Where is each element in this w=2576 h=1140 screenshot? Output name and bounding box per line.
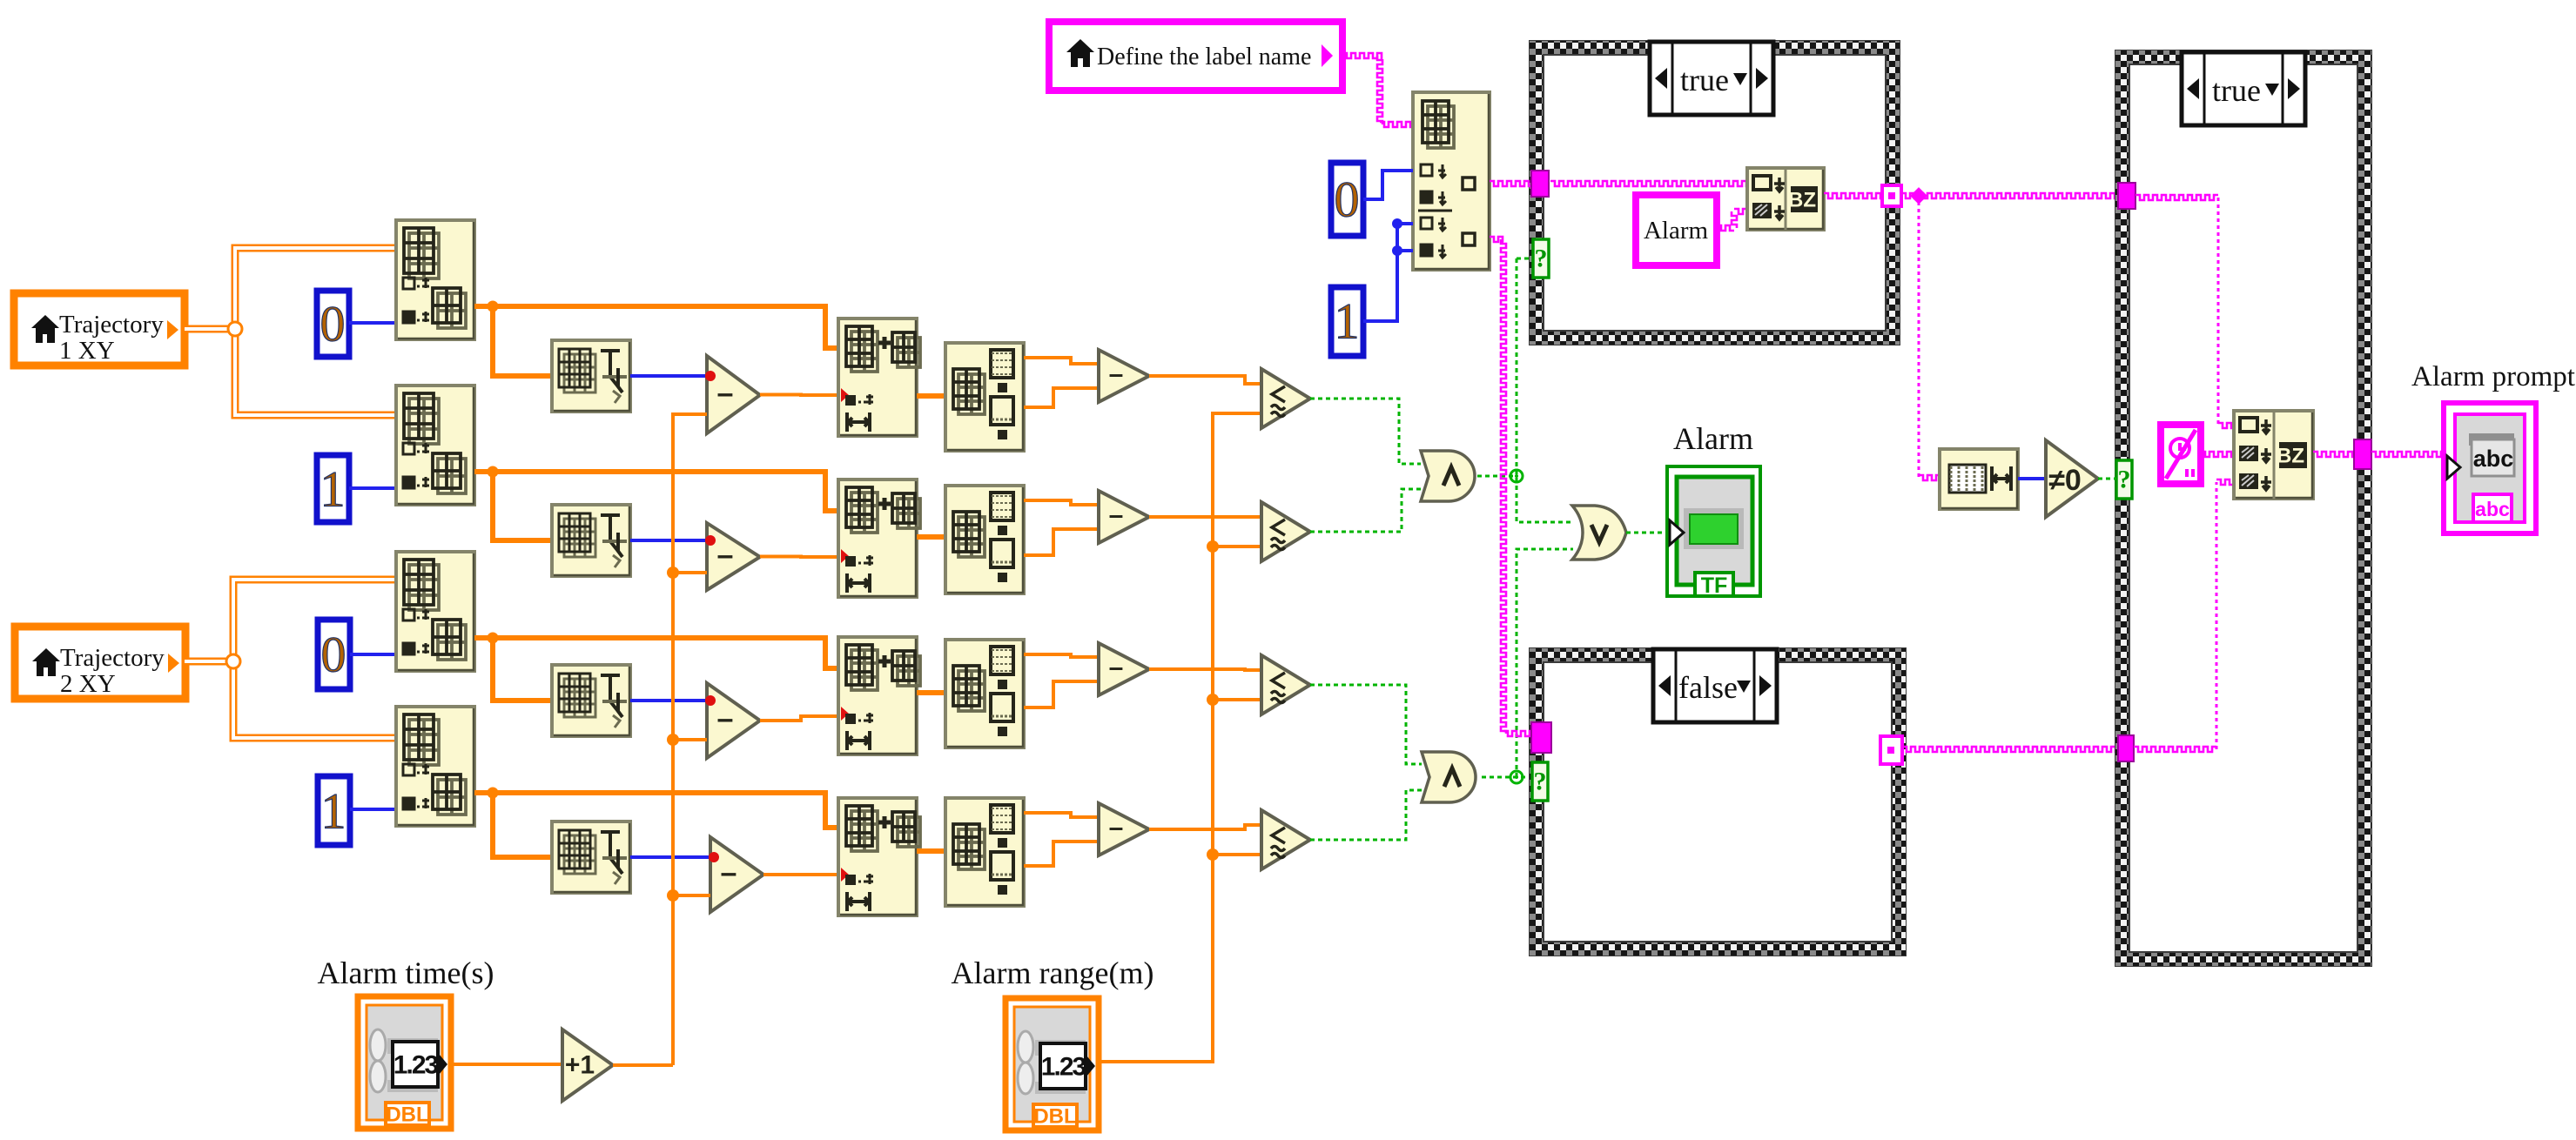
wire subtract B1 to insert bbox=[760, 555, 838, 560]
wire range feed row C bbox=[1213, 698, 1261, 701]
wire format2 to tunnel bbox=[2313, 452, 2354, 457]
increment +1 node bbox=[562, 1029, 613, 1101]
wire range feed row B bbox=[1213, 545, 1261, 548]
svg-text:false: false bbox=[1678, 670, 1738, 705]
wire maxmin A min out bbox=[1024, 388, 1099, 407]
svg-text:TF: TF bbox=[1701, 573, 1728, 598]
wire delete out2 down bbox=[1490, 237, 1531, 736]
svg-text:abc: abc bbox=[2475, 498, 2510, 520]
constant 0 (delete node) bbox=[1331, 163, 1363, 236]
wire trajectory 1 upper branch bbox=[235, 248, 396, 324]
svg-text:–: – bbox=[717, 702, 734, 735]
svg-text:1 XY: 1 XY bbox=[59, 337, 115, 365]
wire insert B to maxmin bbox=[917, 534, 945, 540]
svg-text:Trajectory: Trajectory bbox=[59, 311, 164, 339]
junction const1 a bbox=[1392, 218, 1402, 229]
junction index C bbox=[488, 633, 499, 644]
wire and1 net vertical bbox=[1517, 258, 1573, 522]
node Index Array D bbox=[396, 707, 474, 826]
svg-text:1.23: 1.23 bbox=[1041, 1053, 1086, 1082]
junction trajectory 1 bbox=[228, 322, 242, 336]
wire index A to threshold bbox=[493, 306, 552, 376]
constant Define the label name bbox=[1049, 22, 1342, 91]
compare less-equal B bbox=[1261, 502, 1310, 561]
wire case2 to case3 bbox=[1902, 747, 2118, 752]
wire index A output bbox=[474, 306, 838, 348]
wire range feed row D bbox=[1213, 853, 1261, 856]
svg-text:–: – bbox=[717, 377, 734, 410]
and gate 1 bbox=[1421, 451, 1475, 501]
wire threshold A to subtract bbox=[630, 374, 707, 378]
wire delete out1 to case1 bbox=[1490, 181, 1533, 186]
junction range feed B bbox=[1207, 540, 1219, 553]
svg-text:1: 1 bbox=[321, 783, 346, 840]
node Threshold 1D Array D bbox=[552, 821, 630, 893]
node Insert Into Array C bbox=[838, 637, 920, 754]
svg-text:0: 0 bbox=[321, 627, 346, 683]
subtract B1 bbox=[707, 523, 760, 590]
wire const to index C bbox=[350, 653, 396, 656]
wire and2 net vertical bbox=[1517, 549, 1573, 777]
junction and1 bbox=[1510, 470, 1523, 482]
wire maxmin C min out bbox=[1024, 681, 1099, 707]
wire maxmin D max out bbox=[1024, 813, 1099, 817]
wire index C to threshold bbox=[493, 638, 552, 701]
terminal Trajectory 2 XY bbox=[15, 627, 185, 699]
wire branch down to strlen bbox=[1919, 202, 1940, 480]
wire const to index D bbox=[350, 808, 396, 811]
wire insert C to maxmin bbox=[917, 690, 945, 695]
node Insert Into Array D bbox=[838, 798, 920, 915]
wire trajectory 1 lower branch bbox=[235, 334, 396, 415]
wire compare B to and1 bbox=[1310, 489, 1421, 532]
wire threshold C to subtract bbox=[630, 699, 707, 702]
wire case3 top run bbox=[2135, 195, 2234, 428]
or gate bbox=[1572, 506, 1626, 560]
svg-text:?: ? bbox=[1534, 768, 1547, 796]
coercion dot subtract A1 bbox=[705, 371, 716, 381]
wire trajectory 1 to branch bbox=[185, 325, 230, 333]
wire +1 output bbox=[613, 1063, 673, 1067]
svg-text:true: true bbox=[2212, 73, 2261, 108]
control Alarm range DBL bbox=[1006, 998, 1099, 1130]
svg-text:–: – bbox=[1109, 501, 1124, 530]
wire case3 bottom run bbox=[2134, 479, 2234, 752]
wire time feed row C bbox=[673, 738, 707, 741]
node Threshold 1D Array C bbox=[552, 665, 630, 736]
junction time feed D bbox=[667, 889, 679, 902]
constant 0 row1 bbox=[317, 291, 349, 357]
wire and2 output bbox=[1482, 776, 1532, 779]
svg-text:Alarm: Alarm bbox=[1644, 217, 1709, 245]
wire insert A to maxmin bbox=[917, 393, 945, 399]
junction index A bbox=[488, 301, 499, 312]
wire const to index B bbox=[349, 486, 396, 490]
node Threshold 1D Array B bbox=[552, 505, 630, 576]
wire time feed row D bbox=[673, 894, 710, 897]
wire neq to case3 bbox=[2098, 478, 2116, 480]
svg-text:0: 0 bbox=[1335, 171, 1360, 228]
wire define label h2 bbox=[1380, 122, 1413, 127]
terminal Trajectory 1 XY bbox=[14, 293, 185, 365]
node Insert Into Array B bbox=[838, 479, 920, 597]
case structure 3 frame bbox=[2115, 50, 2371, 966]
tunnel case2 input bbox=[1531, 722, 1551, 753]
junction const1 b bbox=[1392, 245, 1402, 256]
wire case1 to format1 bbox=[1550, 181, 1747, 186]
coercion dot subtract D1 bbox=[709, 852, 719, 862]
node Index Array A bbox=[396, 220, 474, 339]
wire const0 to delete bbox=[1363, 171, 1413, 199]
wire trajectory 2 to branch bbox=[185, 658, 228, 666]
svg-text:?: ? bbox=[1535, 245, 1548, 273]
wire subtract D1 to insert bbox=[763, 873, 838, 876]
coercion dot subtract B1 bbox=[705, 535, 716, 546]
node Index Array C bbox=[396, 552, 474, 671]
terminal case2 selector ? bbox=[1532, 762, 1548, 801]
subtract B2 bbox=[1099, 491, 1149, 543]
svg-text:–: – bbox=[717, 539, 734, 572]
node Index Array B bbox=[396, 386, 474, 505]
wire maxmin C max out bbox=[1024, 654, 1099, 657]
wire threshold D to subtract bbox=[630, 855, 710, 859]
svg-text:Alarm: Alarm bbox=[1673, 421, 1753, 456]
svg-text:abc: abc bbox=[2473, 446, 2514, 472]
wire index B to threshold bbox=[493, 472, 552, 540]
case structure 2 frame bbox=[1530, 648, 1906, 956]
tunnel case2 output bbox=[1880, 736, 1902, 764]
wire or to alarm bbox=[1626, 532, 1666, 534]
and gate 2 bbox=[1422, 752, 1476, 802]
node Format Into String 2 bbox=[2234, 411, 2313, 499]
subtract C2 bbox=[1099, 643, 1149, 695]
svg-text:+1: +1 bbox=[565, 1051, 595, 1080]
subtract C1 bbox=[707, 683, 760, 758]
wire alarm const to format1 bbox=[1717, 209, 1747, 231]
wire maxmin B max out bbox=[1024, 500, 1099, 505]
node Array Max Min D bbox=[945, 798, 1024, 906]
node Delete From Array bbox=[1413, 92, 1490, 270]
wire clock to format2 bbox=[2201, 452, 2234, 457]
svg-text:1.23: 1.23 bbox=[393, 1051, 439, 1080]
wire maxmin A max out bbox=[1024, 358, 1099, 364]
wire index C output bbox=[474, 638, 838, 668]
compare less-equal D bbox=[1261, 810, 1310, 869]
constant 1 row4 bbox=[318, 776, 350, 845]
case structure 1 frame bbox=[1530, 41, 1900, 345]
terminal case1 selector ? bbox=[1533, 239, 1549, 278]
constant 1 (delete node) bbox=[1331, 287, 1363, 356]
svg-text:–: – bbox=[1109, 814, 1124, 842]
wire alarm range vertical bbox=[1099, 413, 1261, 1062]
wire const1 branch bbox=[1397, 249, 1413, 252]
svg-text:DBL: DBL bbox=[1033, 1105, 1076, 1129]
wire alarm time vertical bbox=[673, 414, 707, 1065]
label Alarm range bbox=[952, 956, 1154, 990]
subtract A2 bbox=[1099, 350, 1149, 402]
wire index D output bbox=[474, 793, 838, 828]
svg-text:BZ: BZ bbox=[1788, 189, 1816, 212]
wire trajectory 2 upper branch bbox=[233, 580, 396, 656]
tunnel case3 bottom input bbox=[2118, 735, 2134, 761]
wire subtract C1 to insert bbox=[760, 716, 838, 721]
subtract D1 bbox=[710, 837, 763, 912]
constant Alarm string bbox=[1636, 195, 1717, 265]
svg-text:?: ? bbox=[2118, 466, 2131, 494]
svg-text:Trajectory: Trajectory bbox=[60, 644, 165, 672]
wire time to +1 bbox=[451, 1063, 562, 1066]
svg-text:≠0: ≠0 bbox=[2048, 464, 2082, 497]
svg-text:DBL: DBL bbox=[386, 1103, 428, 1127]
junction and2 bbox=[1510, 771, 1523, 783]
junction index B bbox=[488, 466, 499, 478]
svg-text:Define the label name: Define the label name bbox=[1097, 44, 1311, 70]
svg-text:0: 0 bbox=[320, 296, 346, 352]
svg-text:–: – bbox=[721, 856, 737, 889]
subtract D2 bbox=[1099, 803, 1149, 855]
tunnel case3 top input bbox=[2118, 183, 2135, 209]
compare less-equal A bbox=[1261, 369, 1310, 428]
control Alarm time DBL bbox=[358, 996, 451, 1129]
svg-text:Alarm time(s): Alarm time(s) bbox=[318, 956, 494, 990]
wire subtract B2 to compare bbox=[1149, 515, 1261, 519]
wire compare D to and2 bbox=[1310, 790, 1422, 840]
wire subtract D2 to compare bbox=[1149, 825, 1261, 829]
svg-text:–: – bbox=[1109, 360, 1124, 389]
svg-text:1: 1 bbox=[320, 461, 346, 518]
wire insert D to maxmin bbox=[917, 848, 945, 854]
label Alarm time bbox=[318, 956, 494, 990]
svg-text:–: – bbox=[1109, 654, 1124, 682]
wire index D to threshold bbox=[493, 793, 552, 857]
wire const1 to delete bbox=[1363, 224, 1413, 321]
terminal case3 selector ? bbox=[2116, 460, 2132, 499]
wire strlen to neq bbox=[2018, 477, 2046, 480]
wire case3 to alarm prompt bbox=[2371, 452, 2444, 457]
svg-text:2 XY: 2 XY bbox=[60, 670, 116, 698]
compare less-equal C bbox=[1261, 655, 1310, 714]
node Format Into String 1 bbox=[1747, 168, 1824, 230]
indicator Alarm prompt bbox=[2411, 361, 2575, 533]
junction magenta branch bbox=[1910, 187, 1927, 205]
subtract A1 bbox=[707, 356, 760, 433]
indicator Alarm TF bbox=[1667, 421, 1760, 598]
constant 1 row2 bbox=[317, 455, 349, 522]
node Insert Into Array A bbox=[838, 319, 920, 436]
wire format1 to case1 edge bbox=[1824, 193, 1882, 198]
junction trajectory 2 bbox=[226, 654, 240, 668]
node Array Max Min B bbox=[945, 486, 1024, 593]
wire threshold B to subtract bbox=[630, 539, 707, 542]
wire and1 output bbox=[1477, 475, 1517, 478]
svg-text:1: 1 bbox=[1335, 293, 1360, 350]
node Get Date Time String bbox=[2161, 425, 2201, 484]
not-equal-zero node bbox=[2046, 440, 2098, 517]
tunnel case1 output bbox=[1882, 185, 1901, 206]
wire case1 selector stub bbox=[1517, 258, 1533, 260]
node Array Max Min C bbox=[945, 640, 1024, 748]
wire define label v bbox=[1377, 56, 1382, 124]
wire subtract C2 to compare bbox=[1149, 669, 1261, 670]
node Array Max Min A bbox=[945, 343, 1024, 451]
wire define label h1 bbox=[1342, 53, 1382, 58]
wire const to index A bbox=[349, 321, 396, 325]
case structure 2 selector bbox=[1653, 649, 1777, 722]
wire compare A to and1 bbox=[1310, 399, 1421, 464]
svg-text:Alarm range(m): Alarm range(m) bbox=[952, 956, 1154, 990]
wire maxmin B min out bbox=[1024, 529, 1099, 555]
wire time feed row B bbox=[673, 571, 707, 574]
wire subtract A2 to compare bbox=[1149, 376, 1261, 384]
junction time feed B bbox=[667, 567, 679, 579]
svg-text:true: true bbox=[1680, 63, 1729, 97]
case structure 3 selector bbox=[2182, 52, 2305, 125]
wire maxmin D min out bbox=[1024, 842, 1099, 866]
junction index D bbox=[488, 788, 499, 799]
wire subtract A1 to insert bbox=[760, 393, 838, 398]
junction time feed C bbox=[667, 734, 679, 746]
svg-text:Alarm prompt: Alarm prompt bbox=[2411, 361, 2575, 392]
tunnel case3 output bbox=[2354, 439, 2371, 469]
wire case1 to case3 bbox=[1901, 193, 2118, 198]
wire trajectory 2 lower branch bbox=[233, 667, 396, 738]
node String Length bbox=[1940, 449, 2018, 509]
junction range feed D bbox=[1207, 848, 1219, 861]
wire compare C to and2 bbox=[1310, 685, 1422, 764]
junction range feed C bbox=[1207, 694, 1219, 706]
svg-text:BZ: BZ bbox=[2277, 445, 2304, 468]
wire index B output bbox=[474, 472, 838, 511]
coercion dot subtract C1 bbox=[705, 695, 716, 706]
constant 0 row3 bbox=[318, 620, 350, 689]
node Threshold 1D Array A bbox=[552, 340, 630, 412]
tunnel case1 input bbox=[1531, 171, 1549, 197]
case structure 1 selector bbox=[1650, 42, 1773, 115]
